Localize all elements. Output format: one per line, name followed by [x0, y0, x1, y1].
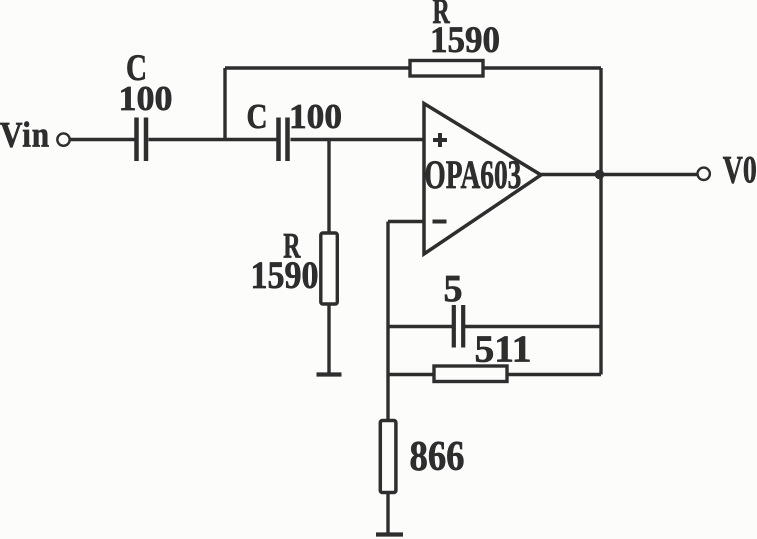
- svg-text:OPA603: OPA603: [424, 152, 521, 197]
- svg-text:100: 100: [289, 97, 342, 136]
- wire junction node B down to R ground: [327, 140, 330, 234]
- capacitor C2 plates: [279, 118, 288, 162]
- wire op-amp minus input left: [388, 220, 424, 223]
- op-amp plus input sign: [433, 133, 447, 147]
- svg-text:Vin: Vin: [0, 115, 50, 155]
- op-amp minus input sign: [433, 220, 447, 224]
- wire right feedback vertical: [599, 68, 602, 375]
- wire R shunt to ground: [327, 304, 330, 373]
- wire C2 to op-amp plus input: [291, 138, 425, 141]
- capacitor C1 plates: [137, 118, 147, 162]
- input terminal circle: [57, 133, 69, 145]
- wire cap 5 branch left: [388, 325, 452, 328]
- resistor 511 body: [434, 366, 507, 382]
- wire input to C1: [71, 138, 136, 141]
- svg-text:1590: 1590: [430, 20, 500, 61]
- resistor R feedback body: [410, 61, 483, 77]
- svg-text:5: 5: [444, 268, 463, 310]
- svg-text:V0: V0: [723, 149, 757, 192]
- wire minus node vertical down: [386, 222, 389, 421]
- ground bar bottom: [376, 532, 403, 536]
- wire cap 5 branch right: [465, 325, 601, 328]
- output terminal circle: [698, 168, 710, 180]
- wire 866 to ground: [386, 493, 389, 534]
- wire top feedback left: [225, 66, 410, 69]
- wire top feedback right: [483, 66, 601, 69]
- svg-text:511: 511: [475, 329, 532, 371]
- resistor R shunt body: [321, 233, 338, 304]
- svg-text:100: 100: [119, 79, 173, 118]
- capacitor 5 plates: [454, 305, 463, 348]
- wire resistor 511 branch right: [507, 373, 601, 376]
- wire op-amp output: [541, 173, 697, 176]
- wire resistor 511 branch left: [388, 373, 434, 376]
- ground bar under R shunt: [317, 372, 342, 376]
- svg-text:C: C: [247, 97, 268, 136]
- svg-text:866: 866: [410, 434, 465, 480]
- svg-text:1590: 1590: [251, 254, 319, 297]
- wire C1 to C2: [149, 138, 278, 141]
- resistor 866 body: [380, 421, 396, 493]
- op-amp U1 triangle: [424, 104, 541, 255]
- wire junction node A up: [223, 68, 226, 140]
- junction dot output node: [595, 170, 605, 180]
